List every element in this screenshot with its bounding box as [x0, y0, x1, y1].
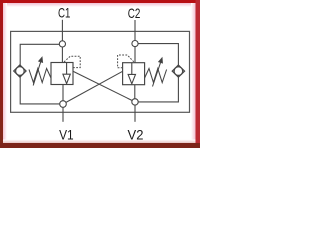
- wire V2 port stub: [134, 102, 136, 122]
- wire left valve outlet: [62, 85, 64, 105]
- wire C1 port stub: [61, 20, 63, 45]
- wire cross line V1 to right valve: [63, 71, 123, 104]
- relief valve RV2 spring: [145, 69, 167, 83]
- wire left valve inlet: [61, 44, 63, 62]
- relief valve RV1 flow arrow: [63, 63, 70, 84]
- wire right valve outlet: [134, 85, 136, 102]
- wire cross line V2 to left valve: [73, 71, 135, 102]
- relief valve RV1 pilot line (dashed): [64, 56, 81, 67]
- wire left check branch: [20, 44, 63, 104]
- wire C2 port stub: [134, 20, 136, 44]
- valve block boundary: [11, 31, 190, 112]
- svg-text:V2: V2: [128, 127, 144, 143]
- wire right check branch: [135, 44, 178, 102]
- node D (V2 junction): [132, 99, 138, 105]
- check valve CV2: [172, 65, 184, 77]
- relief valve RV1 body: [51, 63, 73, 85]
- node A1 (C1 junction): [59, 41, 65, 47]
- svg-text:C1: C1: [58, 5, 71, 21]
- relief valve RV2 flow arrow: [128, 63, 135, 84]
- relief valve RV2 body: [123, 63, 145, 85]
- wire V1 port stub: [62, 104, 64, 122]
- svg-text:C2: C2: [128, 5, 141, 21]
- check valve CV1: [14, 65, 26, 77]
- relief valve RV2 adjustment arrow: [153, 58, 163, 87]
- node B (V1 junction): [60, 101, 67, 108]
- svg-text:V1: V1: [59, 126, 74, 142]
- node A2 (C2 junction): [132, 41, 138, 47]
- relief valve RV1 adjustment arrow: [33, 57, 42, 85]
- relief valve RV2 pilot line (dashed): [118, 55, 134, 68]
- wire right valve inlet: [134, 44, 136, 63]
- relief valve RV1 spring: [29, 69, 51, 83]
